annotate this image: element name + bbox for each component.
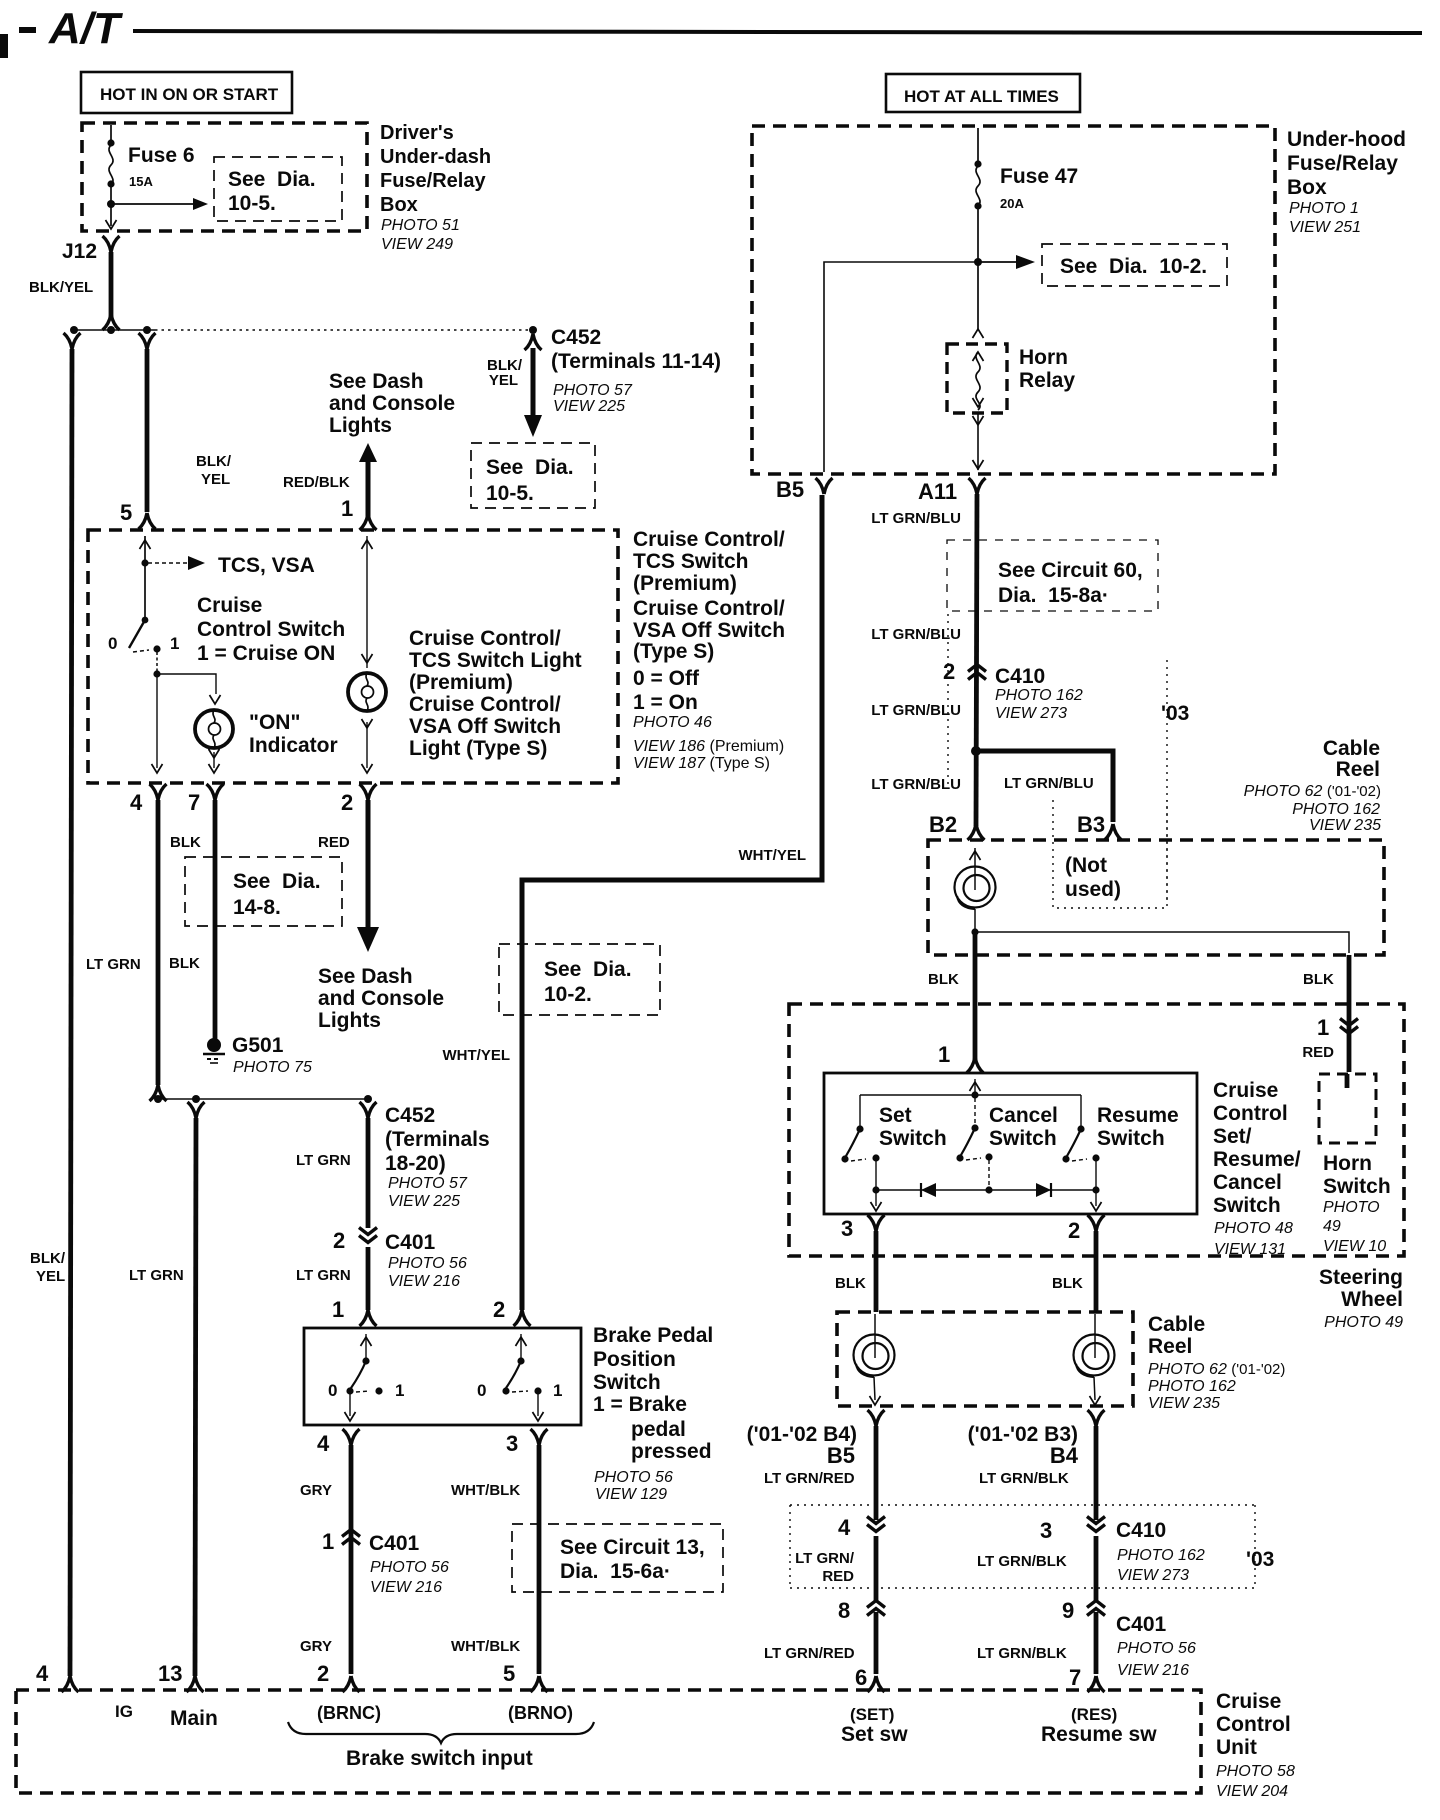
svg-text:See Dash: See Dash xyxy=(318,965,413,988)
svg-text:Fuse 6: Fuse 6 xyxy=(128,144,195,167)
svg-text:C410: C410 xyxy=(995,665,1045,688)
svg-text:LT GRN/BLU: LT GRN/BLU xyxy=(871,776,961,793)
switch wire from pin5 xyxy=(140,540,151,549)
svg-text:14-8.: 14-8. xyxy=(233,896,281,919)
svg-text:VIEW 273: VIEW 273 xyxy=(995,705,1067,722)
svg-text:(BRNO): (BRNO) xyxy=(508,1703,573,1723)
svg-text:Relay: Relay xyxy=(1019,369,1075,392)
svg-text:20A: 20A xyxy=(1000,196,1024,211)
svg-text:pedal: pedal xyxy=(631,1418,686,1441)
svg-text:Horn: Horn xyxy=(1019,346,1068,369)
svg-text:(Terminals: (Terminals xyxy=(385,1128,490,1151)
diode D1 (left) xyxy=(920,1183,922,1197)
svg-text:'03: '03 xyxy=(1246,1548,1274,1571)
svg-text:VIEW 249: VIEW 249 xyxy=(381,236,453,253)
svg-text:B5: B5 xyxy=(776,477,804,502)
hot-in-on-or-start box xyxy=(81,72,292,113)
resume switch xyxy=(1077,1125,1084,1132)
svg-text:See Circuit 60,: See Circuit 60, xyxy=(998,559,1143,582)
svg-text:9: 9 xyxy=(1062,1598,1074,1623)
svg-text:GRY: GRY xyxy=(300,1638,332,1655)
svg-text:LT GRN: LT GRN xyxy=(296,1152,351,1169)
svg-text:PHOTO 62 ('01-'02): PHOTO 62 ('01-'02) xyxy=(1244,783,1381,800)
branch to B5 xyxy=(824,262,978,472)
svg-text:VSA Off Switch: VSA Off Switch xyxy=(633,619,785,642)
svg-text:Indicator: Indicator xyxy=(249,734,338,757)
svg-text:Cruise Control/: Cruise Control/ xyxy=(409,627,561,650)
svg-text:BLK: BLK xyxy=(1052,1275,1083,1292)
svg-text:Cruise: Cruise xyxy=(1213,1079,1278,1102)
svg-text:5: 5 xyxy=(503,1661,515,1686)
wire to pin 4 xyxy=(156,674,158,768)
svg-text:See Dash: See Dash xyxy=(329,370,424,393)
svg-text:(Not: (Not xyxy=(1065,854,1107,877)
svg-text:4: 4 xyxy=(36,1661,49,1686)
'03 dotted region (lower) xyxy=(790,1505,1255,1588)
svg-text:LT GRN/BLK: LT GRN/BLK xyxy=(979,1470,1069,1487)
svg-text:0: 0 xyxy=(477,1381,486,1400)
svg-text:1: 1 xyxy=(1317,1015,1329,1040)
svg-text:BLK/YEL: BLK/YEL xyxy=(29,279,93,296)
cable reel box (dashed) xyxy=(928,840,1384,955)
svg-text:2: 2 xyxy=(317,1661,329,1686)
svg-text:8: 8 xyxy=(838,1598,850,1623)
svg-text:Main: Main xyxy=(170,1707,218,1730)
svg-text:0 = Off: 0 = Off xyxy=(633,667,700,690)
svg-text:Dia. 15-6a·: Dia. 15-6a· xyxy=(560,1560,671,1583)
junction line y=1099 xyxy=(154,1095,162,1103)
wire B (BLK/YEL) to switch pin 5 xyxy=(139,333,156,349)
svg-text:LT GRN/BLU: LT GRN/BLU xyxy=(871,702,961,719)
svg-text:Switch: Switch xyxy=(593,1371,661,1394)
svg-text:Cancel: Cancel xyxy=(989,1104,1058,1127)
svg-text:HOT IN ON OR START: HOT IN ON OR START xyxy=(100,85,279,104)
svg-text:Driver's: Driver's xyxy=(380,122,454,144)
svg-text:10-2.: 10-2. xyxy=(544,983,592,1006)
junction to B3 xyxy=(971,746,981,756)
ground G501 xyxy=(207,1038,221,1052)
svg-text:LT GRN: LT GRN xyxy=(86,956,141,973)
svg-text:BLK: BLK xyxy=(170,834,201,851)
svg-text:10-5.: 10-5. xyxy=(486,482,534,505)
TCS/VSA light lamp xyxy=(348,673,386,711)
svg-text:PHOTO 57: PHOTO 57 xyxy=(553,382,633,399)
see dia 10-2 box (mid) xyxy=(499,944,660,1015)
svg-text:Cruise: Cruise xyxy=(1216,1690,1281,1713)
svg-text:used): used) xyxy=(1065,878,1121,901)
svg-text:C401: C401 xyxy=(369,1532,420,1555)
diode bus xyxy=(876,1189,1096,1191)
svg-text:4: 4 xyxy=(130,790,143,815)
svg-text:0: 0 xyxy=(328,1381,337,1400)
svg-text:4: 4 xyxy=(838,1515,851,1540)
node under switch xyxy=(156,652,158,673)
svg-text:3: 3 xyxy=(841,1216,853,1241)
svg-text:VIEW 273: VIEW 273 xyxy=(1117,1567,1189,1584)
svg-text:VIEW 225: VIEW 225 xyxy=(553,398,625,415)
svg-text:PHOTO 75: PHOTO 75 xyxy=(233,1059,312,1076)
svg-text:Cable: Cable xyxy=(1323,737,1380,760)
svg-text:VIEW 187 (Type S): VIEW 187 (Type S) xyxy=(633,755,770,772)
svg-text:GRY: GRY xyxy=(300,1482,332,1499)
svg-text:WHT/YEL: WHT/YEL xyxy=(443,1047,511,1064)
svg-text:TCS Switch: TCS Switch xyxy=(633,550,749,573)
svg-text:LT GRN/RED: LT GRN/RED xyxy=(764,1470,855,1487)
see dia 10-2 box (top) xyxy=(1042,244,1227,286)
svg-text:B4: B4 xyxy=(1050,1443,1079,1468)
svg-text:Cable: Cable xyxy=(1148,1313,1205,1336)
BLK wires down xyxy=(874,1231,879,1312)
svg-text:J12: J12 xyxy=(62,240,97,263)
see dia 10-5 box (mid) xyxy=(471,443,595,508)
J12 connector xyxy=(103,236,120,252)
svg-text:Steering: Steering xyxy=(1319,1266,1403,1289)
TCS,VSA dashed arrow xyxy=(148,562,190,564)
horn switch box (dashed) xyxy=(1319,1074,1376,1143)
svg-text:6: 6 xyxy=(855,1665,867,1690)
svg-text:See Circuit 13,: See Circuit 13, xyxy=(560,1536,705,1559)
wire pin4 (LT GRN) xyxy=(156,800,161,1085)
svg-text:Under-dash: Under-dash xyxy=(380,146,491,168)
svg-text:(Terminals 11-14): (Terminals 11-14) xyxy=(551,350,721,373)
svg-text:(Premium): (Premium) xyxy=(633,572,737,595)
svg-text:2: 2 xyxy=(943,659,955,684)
wire J12 down xyxy=(109,252,114,320)
cancel switch xyxy=(971,1124,978,1131)
svg-text:Dia. 15-8a·: Dia. 15-8a· xyxy=(998,584,1109,607)
fuse F6 wire top xyxy=(110,125,112,142)
svg-text:1: 1 xyxy=(322,1529,334,1554)
svg-text:Set sw: Set sw xyxy=(841,1723,908,1746)
svg-text:PHOTO 162: PHOTO 162 xyxy=(995,687,1083,704)
pin 3 xyxy=(875,1190,877,1206)
svg-text:See Dia.: See Dia. xyxy=(486,456,574,479)
svg-text:WHT/BLK: WHT/BLK xyxy=(451,1638,520,1655)
svg-text:PHOTO 162: PHOTO 162 xyxy=(1292,801,1380,818)
svg-text:PHOTO 56: PHOTO 56 xyxy=(388,1255,467,1272)
svg-text:PHOTO 1: PHOTO 1 xyxy=(1289,200,1359,217)
svg-text:1: 1 xyxy=(938,1042,950,1067)
svg-text:PHOTO 162: PHOTO 162 xyxy=(1117,1547,1205,1564)
svg-text:RED: RED xyxy=(318,834,350,851)
svg-text:Cruise Control/: Cruise Control/ xyxy=(633,528,785,551)
svg-text:(Premium): (Premium) xyxy=(409,671,513,694)
svg-text:Control Switch: Control Switch xyxy=(197,618,345,641)
svg-text:PHOTO 46: PHOTO 46 xyxy=(633,714,712,731)
svg-text:2: 2 xyxy=(1068,1218,1080,1243)
svg-text:Fuse/Relay: Fuse/Relay xyxy=(380,170,486,192)
svg-text:Switch: Switch xyxy=(989,1127,1057,1150)
cruise switch blade xyxy=(142,617,149,624)
svg-text:Horn: Horn xyxy=(1323,1152,1372,1175)
svg-text:PHOTO 56: PHOTO 56 xyxy=(594,1469,673,1486)
svg-text:Switch: Switch xyxy=(1097,1127,1165,1150)
svg-text:LT GRN/BLK: LT GRN/BLK xyxy=(977,1645,1067,1662)
svg-text:Reel: Reel xyxy=(1148,1335,1192,1358)
svg-text:Fuse/Relay: Fuse/Relay xyxy=(1287,152,1398,175)
svg-text:15A: 15A xyxy=(129,174,153,189)
svg-text:HOT AT ALL TIMES: HOT AT ALL TIMES xyxy=(904,87,1059,106)
svg-text:RED: RED xyxy=(822,1568,854,1585)
svg-text:Brake Pedal: Brake Pedal xyxy=(593,1324,713,1347)
svg-text:1 = Cruise ON: 1 = Cruise ON xyxy=(197,642,335,665)
svg-text:PHOTO 48: PHOTO 48 xyxy=(1214,1220,1293,1237)
brake pedal position switch box xyxy=(304,1328,581,1425)
cable reel 2 box (dashed) xyxy=(837,1312,1133,1406)
left switch xyxy=(361,1337,372,1346)
hot-at-all-times box xyxy=(886,74,1080,112)
svg-text:See Dia.: See Dia. xyxy=(228,168,316,191)
svg-text:VIEW 225: VIEW 225 xyxy=(388,1193,460,1210)
svg-text:Box: Box xyxy=(1287,176,1327,199)
svg-text:'03: '03 xyxy=(1161,702,1189,725)
svg-text:Switch: Switch xyxy=(1213,1194,1281,1217)
svg-text:G501: G501 xyxy=(232,1034,284,1057)
right switch xyxy=(516,1337,527,1346)
svg-text:Cruise Control/: Cruise Control/ xyxy=(409,693,561,716)
svg-text:LT GRN: LT GRN xyxy=(296,1267,351,1284)
svg-text:See Dia.: See Dia. xyxy=(544,958,632,981)
svg-text:A11: A11 xyxy=(918,479,957,504)
svg-text:BLK/: BLK/ xyxy=(30,1250,66,1267)
svg-text:(BRNC): (BRNC) xyxy=(317,1703,381,1723)
svg-text:VSA Off Switch: VSA Off Switch xyxy=(409,715,561,738)
svg-text:PHOTO 57: PHOTO 57 xyxy=(388,1175,468,1192)
svg-text:(Type S): (Type S) xyxy=(633,640,714,663)
svg-text:18-20): 18-20) xyxy=(385,1152,446,1175)
svg-text:YEL: YEL xyxy=(489,372,518,389)
svg-text:LT GRN/RED: LT GRN/RED xyxy=(764,1645,855,1662)
svg-text:2: 2 xyxy=(493,1297,505,1322)
svg-text:VIEW 131: VIEW 131 xyxy=(1214,1241,1286,1258)
internal link to horn wire xyxy=(975,932,1349,953)
svg-text:PHOTO 56: PHOTO 56 xyxy=(370,1559,449,1576)
svg-text:Set: Set xyxy=(879,1104,912,1127)
svg-text:LT GRN/BLU: LT GRN/BLU xyxy=(871,510,961,527)
svg-text:Unit: Unit xyxy=(1216,1736,1257,1759)
svg-text:Lights: Lights xyxy=(329,414,392,437)
arrowhead at box bottom xyxy=(106,220,117,229)
svg-text:Cancel: Cancel xyxy=(1213,1171,1282,1194)
svg-text:C410: C410 xyxy=(1116,1519,1166,1542)
svg-text:LT GRN: LT GRN xyxy=(129,1267,184,1284)
svg-text:VIEW 216: VIEW 216 xyxy=(370,1579,442,1596)
svg-text:VIEW 129: VIEW 129 xyxy=(595,1486,667,1503)
svg-text:RED: RED xyxy=(1302,1044,1334,1061)
svg-text:Cruise Control/: Cruise Control/ xyxy=(633,597,785,620)
svg-text:PHOTO 49: PHOTO 49 xyxy=(1324,1314,1403,1331)
svg-text:BLK: BLK xyxy=(928,971,959,988)
junction with arrow to see dia 10-2 xyxy=(974,258,982,266)
svg-text:TCS, VSA: TCS, VSA xyxy=(218,554,315,577)
svg-text:LT GRN/BLU: LT GRN/BLU xyxy=(1004,775,1094,792)
BLK wire to horn switch xyxy=(1347,955,1352,1072)
title dash xyxy=(19,27,36,33)
RED/BLK wire with up arrow xyxy=(359,443,377,462)
svg-text:BLK: BLK xyxy=(835,1275,866,1292)
coil resume xyxy=(1094,1314,1096,1358)
svg-text:BLK: BLK xyxy=(1303,971,1334,988)
svg-text:B3: B3 xyxy=(1077,812,1105,837)
svg-text:PHOTO 51: PHOTO 51 xyxy=(381,217,460,234)
svg-text:(SET): (SET) xyxy=(850,1705,894,1724)
svg-text:VIEW 204: VIEW 204 xyxy=(1216,1783,1288,1800)
svg-text:IG: IG xyxy=(115,1702,133,1721)
svg-text:PHOTO: PHOTO xyxy=(1323,1199,1380,1216)
wire pin2 (RED) big arrow xyxy=(366,800,371,930)
brake switch input brace xyxy=(288,1722,594,1743)
title rule xyxy=(133,31,1422,33)
BLK wire down from coil xyxy=(973,932,978,1060)
svg-text:5: 5 xyxy=(120,500,132,525)
svg-text:LT GRN/: LT GRN/ xyxy=(795,1550,855,1567)
wire pin7 (BLK) xyxy=(213,800,218,1040)
svg-text:VIEW 10: VIEW 10 xyxy=(1323,1238,1386,1255)
pin 2 xyxy=(1095,1190,1097,1206)
svg-text:pressed: pressed xyxy=(631,1440,712,1463)
svg-text:Box: Box xyxy=(380,194,418,216)
set switch xyxy=(856,1125,863,1132)
svg-text:VIEW 251: VIEW 251 xyxy=(1289,219,1361,236)
svg-text:7: 7 xyxy=(188,790,200,815)
C452 (18-20) wire xyxy=(360,1102,377,1118)
svg-text:10-5.: 10-5. xyxy=(228,192,276,215)
svg-text:VIEW 216: VIEW 216 xyxy=(1117,1662,1189,1679)
connector at junction xyxy=(103,314,120,330)
svg-text:C401: C401 xyxy=(385,1231,436,1254)
steering wheel box (dashed) xyxy=(789,1004,1404,1256)
cruise control unit box xyxy=(16,1690,1201,1793)
horn relay (dashed box) xyxy=(947,344,1007,413)
svg-text:1 = On: 1 = On xyxy=(633,691,698,714)
svg-text:BLK/: BLK/ xyxy=(196,453,232,470)
svg-text:Control: Control xyxy=(1213,1102,1288,1125)
svg-text:Under-hood: Under-hood xyxy=(1287,128,1406,151)
svg-text:C452: C452 xyxy=(551,326,601,349)
fuse 6 element xyxy=(109,145,113,185)
under-hood fuse/relay box (dashed) xyxy=(752,126,1275,474)
C452 (terminals 11-14) drop xyxy=(525,334,542,350)
'03 dotted region (upper) xyxy=(947,614,949,786)
svg-text:VIEW 235: VIEW 235 xyxy=(1309,817,1381,834)
common feed xyxy=(970,1082,981,1091)
svg-text:TCS Switch Light: TCS Switch Light xyxy=(409,649,582,672)
svg-text:A/T: A/T xyxy=(48,4,123,53)
svg-text:PHOTO 58: PHOTO 58 xyxy=(1216,1763,1295,1780)
svg-text:(RES): (RES) xyxy=(1071,1705,1117,1724)
svg-text:Resume: Resume xyxy=(1097,1104,1179,1127)
svg-text:YEL: YEL xyxy=(36,1268,65,1285)
svg-text:RED/BLK: RED/BLK xyxy=(283,474,350,491)
svg-text:4: 4 xyxy=(317,1431,330,1456)
svg-text:Wheel: Wheel xyxy=(1341,1288,1403,1311)
svg-text:Resume/: Resume/ xyxy=(1213,1148,1301,1171)
svg-text:49: 49 xyxy=(1323,1218,1341,1235)
TCS switch light wire from pin1 xyxy=(362,540,373,549)
see dia 14-8 box xyxy=(185,857,342,926)
svg-text:WHT/BLK: WHT/BLK xyxy=(451,1482,520,1499)
wire to horn relay xyxy=(977,262,979,330)
WHT/YEL wire long xyxy=(522,495,822,1310)
svg-text:PHOTO 162: PHOTO 162 xyxy=(1148,1378,1236,1395)
wire Main down xyxy=(188,1102,205,1118)
diode D2 (right) xyxy=(1050,1183,1052,1197)
LT GRN/BLU wire A11 down xyxy=(976,494,977,826)
svg-text:Resume sw: Resume sw xyxy=(1041,1723,1157,1746)
see dia 10-5 box (top-left) xyxy=(214,157,342,221)
see circuit 13 box xyxy=(512,1524,723,1592)
svg-text:"ON": "ON" xyxy=(249,711,300,734)
svg-text:Cruise: Cruise xyxy=(197,594,262,617)
svg-text:Switch: Switch xyxy=(1323,1175,1391,1198)
wire A (BLK/YEL) long left xyxy=(64,333,81,349)
svg-text:13: 13 xyxy=(158,1661,182,1686)
svg-text:See Dia.: See Dia. xyxy=(233,870,321,893)
below relay xyxy=(977,413,979,470)
svg-text:3: 3 xyxy=(506,1431,518,1456)
svg-text:Position: Position xyxy=(593,1348,676,1371)
svg-text:B5: B5 xyxy=(827,1443,855,1468)
svg-text:Lights: Lights xyxy=(318,1009,381,1032)
svg-text:1 = Brake: 1 = Brake xyxy=(593,1393,687,1416)
svg-text:C401: C401 xyxy=(1116,1613,1167,1636)
junction to see-dia arrow xyxy=(107,200,115,208)
svg-text:3: 3 xyxy=(1040,1518,1052,1543)
svg-text:Light (Type S): Light (Type S) xyxy=(409,737,547,760)
svg-text:Reel: Reel xyxy=(1336,758,1380,781)
svg-text:PHOTO 56: PHOTO 56 xyxy=(1117,1640,1196,1657)
svg-text:0: 0 xyxy=(108,634,117,653)
ON indicator lamp U1 xyxy=(210,695,221,704)
coil set xyxy=(874,1314,876,1358)
svg-text:BLK: BLK xyxy=(169,955,200,972)
left margin mark xyxy=(0,34,8,58)
svg-text:and Console: and Console xyxy=(318,987,444,1010)
svg-text:Set/: Set/ xyxy=(1213,1125,1252,1148)
svg-text:7: 7 xyxy=(1069,1665,1081,1690)
svg-text:B2: B2 xyxy=(929,812,957,837)
driver's under-dash fuse/relay box (dashed) xyxy=(82,123,367,231)
svg-text:Switch: Switch xyxy=(879,1127,947,1150)
svg-text:Control: Control xyxy=(1216,1713,1291,1736)
svg-text:VIEW 235: VIEW 235 xyxy=(1148,1395,1220,1412)
svg-text:1: 1 xyxy=(170,634,179,653)
svg-text:1: 1 xyxy=(553,1381,562,1400)
svg-text:and Console: and Console xyxy=(329,392,455,415)
B5/B4 pins below xyxy=(868,1410,885,1426)
(Not used) dotted box xyxy=(1053,800,1167,908)
svg-text:1: 1 xyxy=(332,1297,344,1322)
svg-text:VIEW 216: VIEW 216 xyxy=(388,1273,460,1290)
svg-text:YEL: YEL xyxy=(201,471,230,488)
svg-text:WHT/YEL: WHT/YEL xyxy=(739,847,807,864)
svg-text:Fuse 47: Fuse 47 xyxy=(1000,165,1078,188)
svg-text:2: 2 xyxy=(333,1228,345,1253)
svg-text:VIEW 186 (Premium): VIEW 186 (Premium) xyxy=(633,738,784,755)
coil B2 xyxy=(974,848,976,890)
svg-text:See Dia. 10-2.: See Dia. 10-2. xyxy=(1060,255,1207,278)
set/resume/cancel switch box xyxy=(824,1073,1197,1214)
cruise control switch box (dashed) xyxy=(88,530,618,783)
svg-text:2: 2 xyxy=(341,790,353,815)
svg-text:LT GRN/BLK: LT GRN/BLK xyxy=(977,1553,1067,1570)
svg-text:1: 1 xyxy=(395,1381,404,1400)
junction dotted line xyxy=(74,329,155,331)
see circuit 60 box xyxy=(947,540,1158,611)
svg-text:1: 1 xyxy=(341,496,353,521)
svg-text:PHOTO 62 ('01-'02): PHOTO 62 ('01-'02) xyxy=(1148,1361,1285,1378)
svg-text:C452: C452 xyxy=(385,1104,435,1127)
